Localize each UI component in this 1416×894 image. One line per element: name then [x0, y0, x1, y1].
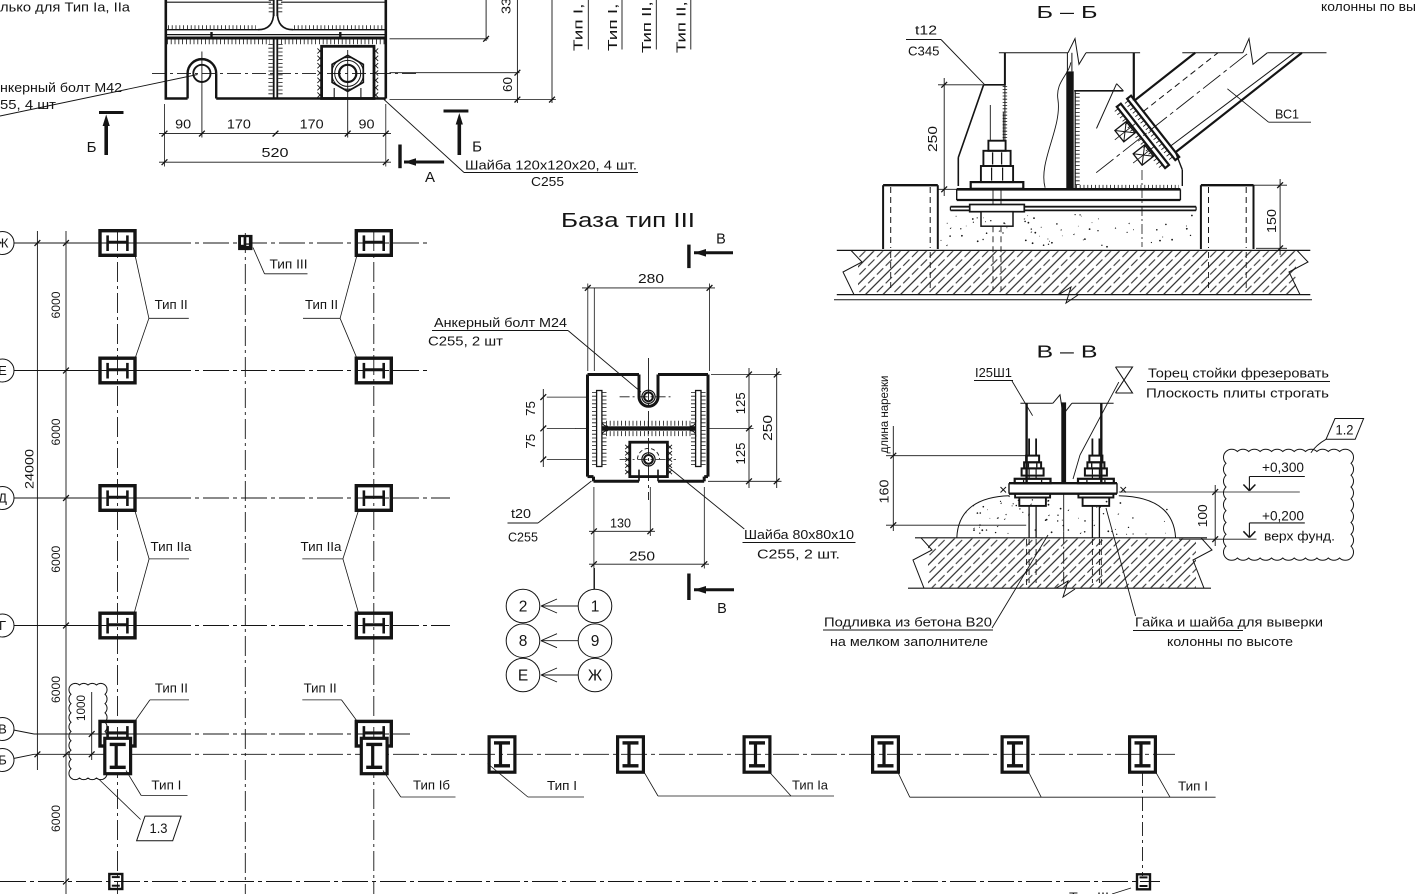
svg-text:База тип III: База тип III — [561, 209, 695, 232]
svg-text:Анкерный болт М24: Анкерный болт М24 — [434, 316, 567, 330]
brace inner thin line — [1171, 53, 1295, 146]
svg-text:С255, 2 шт: С255, 2 шт — [428, 335, 503, 349]
column flange right (plan) — [696, 391, 701, 467]
column web (plan, solid) — [602, 426, 695, 430]
brace splice band 2 — [1117, 104, 1169, 168]
plate bottom edge — [165, 97, 188, 100]
plan columns row Д — [100, 486, 135, 511]
svg-text:60: 60 — [500, 77, 515, 92]
column flange left (plan) — [597, 391, 602, 467]
crush marks washer edges — [625, 445, 629, 449]
svg-text:6000: 6000 — [49, 418, 63, 445]
axis bubble Б — [0, 749, 14, 772]
plan columns row Г — [100, 613, 135, 638]
svg-text:А: А — [425, 169, 435, 186]
callout washer 80x80x10 — [669, 468, 744, 529]
plan columns row Е — [100, 358, 135, 383]
foundation breaks (В-В) — [913, 538, 932, 588]
svg-text:С255: С255 — [531, 175, 564, 189]
washer 120x120 square — [322, 46, 374, 98]
column axis for type III bottom — [1142, 772, 1144, 876]
leader from bowtie to plate — [1080, 382, 1119, 455]
svg-text:В: В — [716, 232, 726, 248]
revision cloud 1.3 area — [69, 683, 107, 779]
svg-text:125: 125 — [733, 392, 748, 414]
label Тип II lower left — [135, 700, 150, 721]
svg-text:Тип I: Тип I — [1178, 779, 1208, 794]
dimension 250 (B-B left) — [938, 84, 986, 86]
hidden slot arc dashed — [638, 448, 660, 459]
svg-text:колонны по высоте: колонны по высоте — [1167, 635, 1293, 649]
svg-text:t12: t12 — [915, 24, 937, 38]
washer 80x80 under plate — [630, 442, 668, 476]
anchor bolt (В-В) — [1028, 439, 1030, 456]
callout washer 120x120x20 — [384, 100, 464, 173]
svg-text:9: 9 — [591, 633, 600, 650]
svg-text:6000: 6000 — [49, 805, 63, 832]
dimension 100 (В-В) — [1119, 491, 1300, 493]
label Тип IIа left — [135, 511, 149, 559]
dimension 150 (B-B right) — [1203, 184, 1287, 186]
bolt symbols on gusset — [1115, 122, 1135, 142]
svg-text:колонны по вы: колонны по вы — [1321, 0, 1416, 14]
weld ticks on base plate top — [1076, 185, 1179, 189]
foundation left break — [843, 250, 862, 294]
column I at x=1015 — [1002, 737, 1028, 772]
svg-text:Тип I, I: Тип I, I — [571, 0, 585, 51]
right pedestal block — [1201, 184, 1254, 186]
slot edges under nut — [333, 88, 335, 98]
svg-text:верх фунд.: верх фунд. — [1264, 529, 1335, 544]
foundation top (В-В) — [915, 537, 1207, 539]
svg-text:Тип Iб: Тип Iб — [413, 778, 450, 793]
svg-text:90: 90 — [359, 117, 375, 132]
axis bubble Ж — [0, 232, 14, 255]
column left flange (В-В) — [1025, 403, 1027, 483]
dimension 130 — [593, 487, 595, 590]
flange top line — [167, 29, 258, 31]
column axis vertical 3 — [373, 231, 375, 894]
weld ticks below flange plate — [167, 39, 270, 44]
label Тип II row Ж right — [340, 256, 357, 319]
dimension line 60 — [516, 0, 518, 103]
web-to-flange fillets — [258, 12, 274, 30]
column I at x=757 — [744, 737, 770, 772]
anchor rod body lines — [989, 105, 991, 141]
top cut line with breaks — [999, 52, 1068, 54]
anchor nut stack — [988, 141, 1005, 151]
foundation bottom (В-В) — [908, 587, 1211, 589]
label Тип Iа group — [643, 771, 658, 796]
anchor rod threaded part — [1004, 86, 1006, 141]
svg-text:Тип IIа: Тип IIа — [301, 539, 343, 554]
flange plate end stubs — [210, 32, 212, 39]
svg-text:Б: Б — [0, 753, 7, 768]
svg-text:75: 75 — [523, 401, 538, 416]
svg-text:В: В — [717, 601, 727, 617]
brace hidden dashed line — [1143, 53, 1218, 112]
gusset top edge horizontal — [1074, 90, 1123, 92]
weld ticks along upper web — [269, 0, 273, 15]
lower web double line — [273, 40, 275, 99]
plan double columns at В/Б left — [100, 721, 135, 746]
svg-text:Плоскость плиты строгать: Плоскость плиты строгать — [1146, 387, 1329, 401]
dimension 520 — [164, 139, 166, 167]
dimension line 330 — [485, 0, 487, 41]
svg-text:t20: t20 — [511, 507, 531, 521]
svg-text:I25Ш1: I25Ш1 — [975, 366, 1012, 380]
centerline below plate — [1063, 494, 1065, 532]
label BC1 with leader — [1227, 89, 1268, 122]
svg-text:1.3: 1.3 — [150, 821, 168, 836]
foundation top line — [837, 249, 1311, 251]
svg-text:Тип II, I: Тип II, I — [674, 0, 688, 53]
column web section (solid) — [1066, 71, 1073, 188]
svg-text:на мелком заполнителе: на мелком заполнителе — [830, 635, 988, 649]
weld ticks above flange line — [168, 25, 256, 29]
weld ticks along web — [606, 421, 692, 426]
crush marks on washer edges — [317, 48, 322, 53]
flag 1.3 — [137, 816, 182, 841]
hex nut M42 — [332, 55, 363, 91]
axis line В intermediate — [14, 730, 35, 734]
svg-text:Ж: Ж — [0, 236, 9, 251]
svg-text:С255, 2 шт.: С255, 2 шт. — [757, 548, 840, 562]
foundation hatch band — [858, 251, 1296, 294]
axis bubble Д — [0, 487, 14, 510]
svg-text:170: 170 — [300, 117, 324, 132]
svg-text:280: 280 — [638, 271, 664, 286]
svg-text:Тип I: Тип I — [151, 778, 181, 793]
anchor bolt (В-В) — [1091, 439, 1093, 456]
horizontal centerline dash-dot — [152, 72, 420, 74]
axis line Б — [14, 754, 35, 758]
svg-text:С345: С345 — [908, 45, 940, 59]
svg-text:Тип II: Тип II — [305, 297, 338, 312]
axis line Е — [14, 370, 165, 372]
column right flange — [1133, 53, 1135, 101]
svg-text:Б – Б: Б – Б — [1037, 2, 1098, 22]
section mark В top — [687, 245, 690, 269]
crush ticks at plate ends (В-В) — [1001, 487, 1007, 493]
svg-text:330: 330 — [498, 0, 513, 14]
substitution mark circles 2-1 — [594, 568, 596, 590]
axis bubble Г — [0, 614, 14, 637]
section mark В bottom — [687, 574, 690, 601]
svg-text:Д: Д — [0, 491, 7, 506]
svg-text:Тип IIа: Тип IIа — [151, 539, 193, 554]
svg-text:1000: 1000 — [76, 695, 88, 721]
leader to anchor bolt M42 — [0, 75, 198, 117]
vertical centerline below gusset — [1141, 170, 1143, 247]
column right flange (В-В) — [1100, 403, 1102, 483]
dimension chain 6000 — [65, 231, 67, 894]
column web double line upper — [273, 0, 275, 16]
svg-text:75: 75 — [523, 434, 538, 449]
milling bowtie symbol — [1116, 367, 1133, 380]
svg-text:Подливка из бетона В20: Подливка из бетона В20 — [824, 616, 992, 630]
plan double columns at В/Б right — [356, 721, 391, 746]
right side extension lines of plan detail — [390, 38, 489, 40]
plate outline left edge — [165, 0, 168, 99]
anchor washer above plate — [971, 182, 1024, 189]
svg-text:лько для Тип Iа, IIа: лько для Тип Iа, IIа — [0, 1, 130, 15]
left pedestal block — [883, 184, 938, 186]
bolt centerline horizontal top — [620, 396, 671, 398]
axis bubble В — [0, 718, 14, 741]
svg-text:1: 1 — [591, 599, 600, 616]
axis line Ж — [14, 242, 165, 244]
section mark B left — [99, 111, 124, 114]
svg-text:100: 100 — [1195, 504, 1210, 527]
base plate (В-В) — [1009, 482, 1117, 484]
column axis vertical 1 — [117, 231, 119, 894]
lower plate — [950, 206, 1196, 208]
svg-text:Е: Е — [0, 363, 7, 378]
weld ticks along lower web — [268, 44, 272, 97]
flange hidden lines in foundation — [1026, 539, 1028, 587]
plate outline type III — [588, 373, 640, 376]
base plate top (B-B section) — [957, 188, 1181, 191]
svg-text:1.2: 1.2 — [1336, 423, 1354, 438]
washer centerline vertical — [347, 50, 349, 138]
svg-text:Тип III: Тип III — [270, 257, 308, 272]
column left flange — [1004, 53, 1006, 86]
svg-text:Тип II: Тип II — [155, 297, 188, 312]
brace axis dash-dot — [1096, 53, 1248, 173]
column axis vertical 2 — [244, 233, 246, 894]
plan columns row Ж — [100, 231, 135, 256]
anchor slot left — [186, 73, 188, 98]
svg-text:Б: Б — [87, 139, 97, 156]
column I at x=630.5 — [618, 737, 644, 772]
axis line Г — [14, 625, 165, 627]
wavy break line of column — [1044, 62, 1071, 187]
svg-text:160: 160 — [876, 480, 891, 504]
svg-text:Тип II: Тип II — [304, 680, 337, 695]
svg-text:125: 125 — [733, 443, 748, 465]
svg-text:длина нарезки: длина нарезки — [879, 376, 891, 454]
label Тип II lower right — [342, 700, 357, 721]
svg-text:Торец стойки фрезеровать: Торец стойки фрезеровать — [1148, 367, 1329, 381]
anchor bolt M24 top circles — [642, 390, 655, 403]
svg-text:170: 170 — [227, 117, 251, 132]
flag 1.2 — [1326, 419, 1364, 440]
axis line Д — [14, 497, 165, 499]
label Тип I group right — [897, 771, 910, 797]
column I at x=1142.5 — [1130, 737, 1156, 772]
svg-text:Тип II: Тип II — [155, 680, 188, 695]
axis line А bottom — [0, 881, 1160, 883]
foundation right break — [1289, 250, 1308, 294]
svg-text:Ж: Ж — [588, 668, 603, 685]
anchor rod below — [992, 226, 994, 291]
svg-text:Тип III: Тип III — [1069, 890, 1109, 894]
gusset sloped left edge — [958, 85, 983, 158]
gusset left edge with weld ticks — [1074, 91, 1076, 189]
brace BC1 lower edge — [1176, 53, 1302, 153]
plan column type III row Ж — [238, 235, 252, 250]
overall vertical dimension line — [551, 0, 553, 103]
column I at x=885.5 — [873, 737, 899, 772]
section mark B right — [444, 110, 469, 113]
label Тип IIа right — [343, 511, 358, 559]
brace end plate band 1 — [1127, 96, 1179, 160]
plate outline right edge — [384, 0, 387, 99]
svg-text:24000: 24000 — [23, 449, 37, 489]
rod through plate — [992, 189, 994, 206]
svg-text:нкерный болт М42: нкерный болт М42 — [0, 81, 122, 95]
foundation bottom lines — [837, 294, 1311, 296]
label Тип III — [253, 248, 265, 274]
gusset inner sloped line — [1097, 84, 1117, 129]
bottom notch edges — [638, 470, 640, 482]
nut circles — [332, 58, 364, 90]
svg-text:Тип I: Тип I — [547, 778, 577, 793]
svg-text:+0,300: +0,300 — [1262, 460, 1304, 475]
washer and nut below plate — [970, 205, 1025, 212]
svg-text:520: 520 — [262, 145, 289, 160]
grout pad dome (В-В) — [957, 496, 1010, 538]
dimension 125-125-250 right — [711, 374, 782, 376]
substitution mark circles 8-9 — [506, 624, 540, 658]
gusset top left corner — [984, 84, 1005, 86]
svg-text:С255: С255 — [508, 531, 538, 545]
dimension 280 — [587, 284, 589, 372]
web fillets — [602, 420, 608, 426]
substitution mark circles Е-Ж — [506, 658, 540, 692]
svg-text:90: 90 — [175, 117, 191, 132]
svg-text:250: 250 — [760, 415, 775, 441]
svg-text:6000: 6000 — [49, 545, 63, 572]
svg-text:Е: Е — [518, 668, 528, 685]
svg-text:Тип II, I: Тип II, I — [640, 0, 654, 53]
svg-text:250: 250 — [925, 126, 940, 152]
column I at x=502 — [489, 737, 515, 772]
svg-text:150: 150 — [1264, 209, 1279, 233]
section mark A — [398, 145, 401, 169]
svg-text:Тип Iа: Тип Iа — [792, 778, 829, 793]
svg-text:В – В: В – В — [1037, 342, 1098, 362]
svg-text:8: 8 — [519, 633, 528, 650]
revision cloud 1.2 — [1223, 449, 1353, 560]
svg-text:Шайба 80х80х10: Шайба 80х80х10 — [744, 528, 854, 542]
svg-text:250: 250 — [629, 549, 655, 564]
svg-text:Шайба 120х120х20, 4 шт.: Шайба 120х120х20, 4 шт. — [465, 159, 637, 173]
dimension 75-75 left — [547, 396, 588, 398]
top cut edge line — [167, 1, 271, 3]
svg-text:Г: Г — [0, 618, 6, 633]
vertical centerline of plate — [648, 358, 650, 384]
svg-text:ВС1: ВС1 — [1275, 107, 1299, 122]
dimension 250 bottom — [703, 487, 705, 569]
svg-text:Б: Б — [472, 139, 482, 156]
svg-text:Гайка и шайба для выверки: Гайка и шайба для выверки — [1135, 616, 1323, 630]
svg-text:В: В — [0, 722, 7, 737]
label Тип II row Ж left — [135, 256, 149, 319]
svg-text:+0,200: +0,200 — [1262, 509, 1304, 524]
column top cut line with break — [1020, 402, 1052, 404]
dimension chain 90-170-170-90 — [164, 104, 166, 139]
anchor bolt bottom circles — [642, 453, 655, 466]
svg-text:6000: 6000 — [49, 291, 63, 318]
brace BC1 upper edge — [1135, 53, 1196, 101]
column web solid (В-В) — [1061, 402, 1066, 483]
web centerline extensions — [575, 427, 588, 429]
foundation hatch (В-В) — [928, 539, 1196, 588]
dimension line 24000 — [36, 231, 38, 770]
row А small columns — [109, 874, 122, 889]
dimension 1000 at axis В — [91, 692, 93, 760]
bolt centerline horizontal bottom — [620, 458, 676, 460]
weld ticks along bands — [1126, 102, 1172, 160]
gusset lower right edges — [1176, 152, 1183, 170]
anchor bolt M42 circle — [193, 65, 210, 82]
svg-text:2: 2 — [519, 599, 528, 616]
grout pad stipple (B-B) — [1024, 218, 1026, 220]
flange plate lines — [167, 34, 385, 36]
axis bubble Е — [0, 359, 14, 382]
svg-text:130: 130 — [610, 516, 631, 531]
svg-text:Тип I, I: Тип I, I — [606, 0, 620, 51]
foundation centre break — [1059, 287, 1078, 303]
svg-text:6000: 6000 — [49, 676, 63, 703]
grout pad stipple (В-В) — [1057, 520, 1058, 521]
bolt centerline vertical — [201, 52, 203, 138]
